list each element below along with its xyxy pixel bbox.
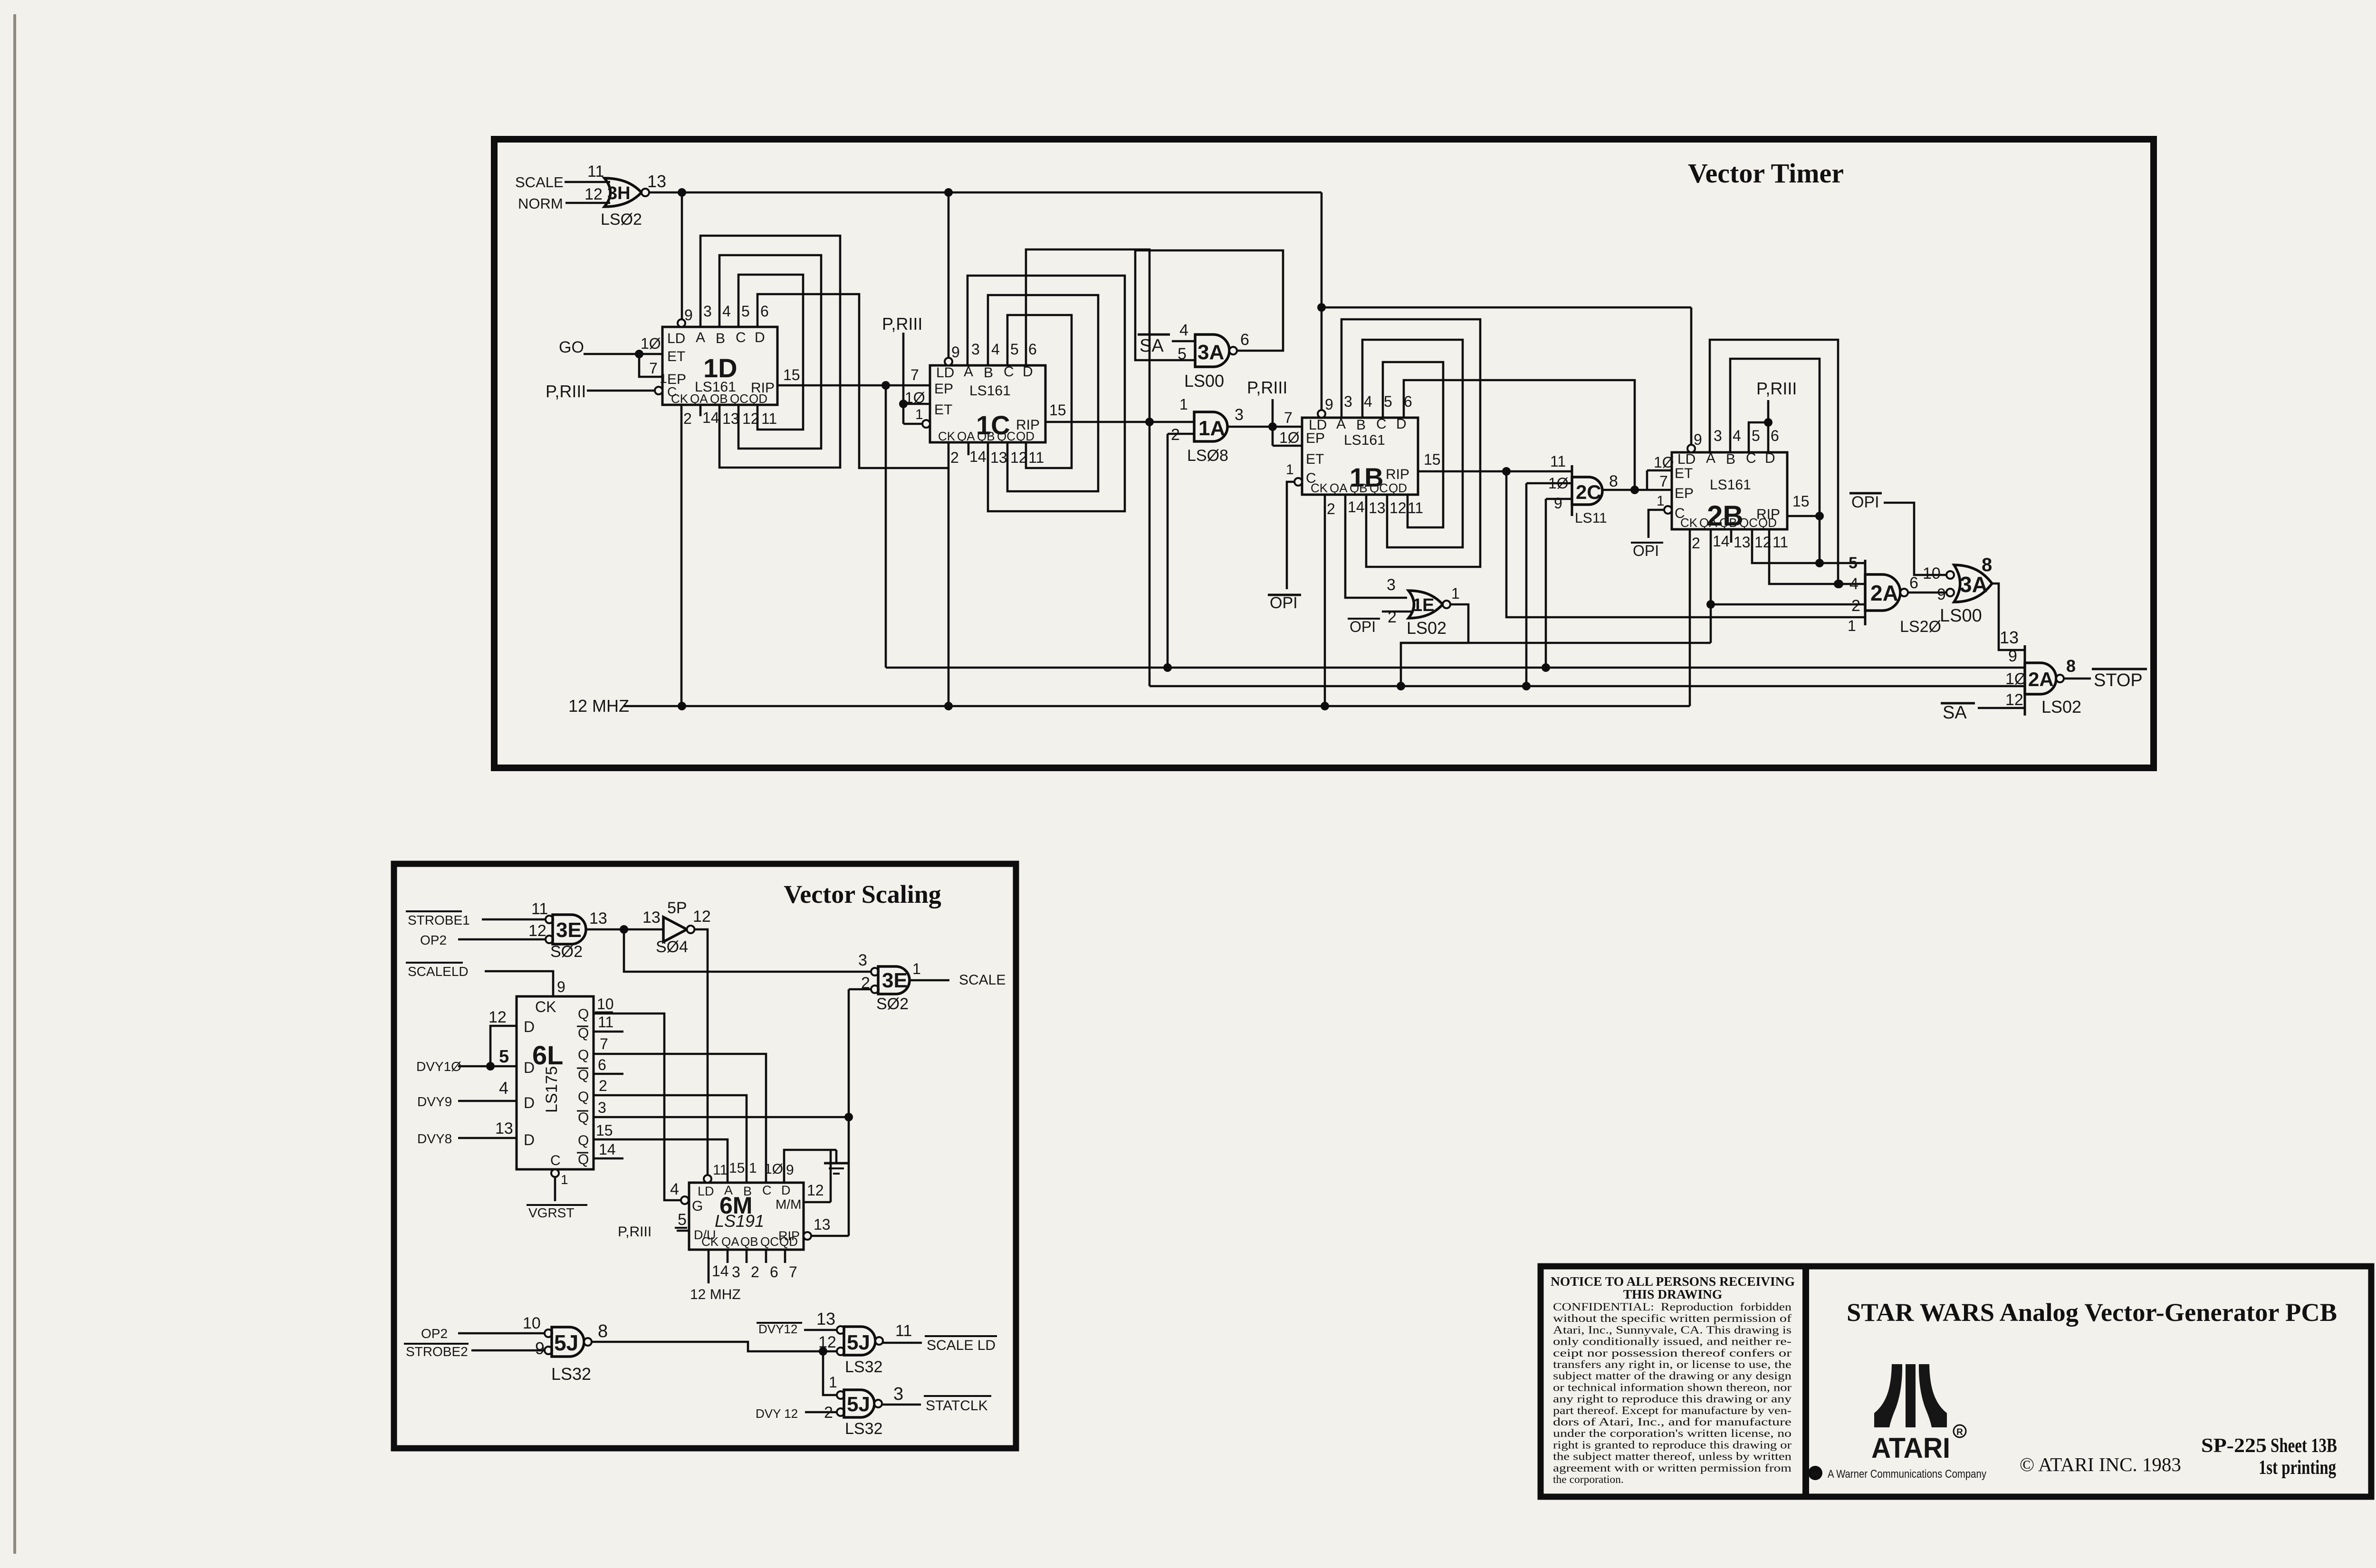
wire scale net vertical <box>848 989 850 1236</box>
IC 1D LS161 counter <box>662 327 777 405</box>
wire CK 2B to 12MHZ bus <box>1689 529 1691 706</box>
wire 3A out 6 feedback to pin 5 <box>1135 250 1283 360</box>
svg-text:12: 12 <box>489 1008 507 1026</box>
svg-text:3: 3 <box>1344 393 1352 410</box>
svg-text:1Ø: 1Ø <box>764 1161 783 1177</box>
wire QA 1C stub <box>968 442 970 455</box>
svg-text:8: 8 <box>1982 555 1992 575</box>
svg-text:A: A <box>1336 416 1346 432</box>
wire SCALE input to 3H pin 11 <box>565 181 610 183</box>
svg-text:D: D <box>524 1018 535 1035</box>
loop 1D QC to B <box>719 255 821 449</box>
svg-text:CK: CK <box>671 392 689 406</box>
svg-text:Sheet 13B: Sheet 13B <box>2271 1435 2337 1457</box>
svg-text:STROBE1: STROBE1 <box>408 913 470 927</box>
svg-text:QC: QC <box>760 1234 779 1249</box>
svg-text:13: 13 <box>647 172 666 191</box>
wire STATCLK output <box>882 1404 921 1406</box>
title block outer box <box>1541 1266 2371 1497</box>
svg-text:LS175: LS175 <box>543 1066 561 1113</box>
svg-text:1: 1 <box>829 1374 837 1391</box>
svg-text:EP: EP <box>934 381 953 397</box>
svg-text:12: 12 <box>528 922 546 940</box>
svg-text:5: 5 <box>741 303 750 320</box>
svg-text:QC: QC <box>1370 481 1388 495</box>
svg-text:LD: LD <box>698 1184 714 1198</box>
svg-text:C: C <box>736 330 746 345</box>
svg-text:Atari, Inc., Sunnyvale, CA. Th: Atari, Inc., Sunnyvale, CA. This drawing… <box>1553 1324 1792 1336</box>
svg-text:5J: 5J <box>554 1330 578 1355</box>
svg-text:SA: SA <box>1140 336 1164 356</box>
wire 2C pin 9 from bus 1405 <box>1546 498 1572 500</box>
loop 1B QB to A <box>1341 319 1480 567</box>
svg-text:QD: QD <box>779 1234 798 1249</box>
wire 1E output to bus 1444 <box>1401 604 1468 686</box>
svg-text:6: 6 <box>1028 341 1037 358</box>
svg-text:P,RIII: P,RIII <box>546 382 586 401</box>
gate 1A LS08 AND <box>1194 412 1227 441</box>
wire 647 horizontal to 2B LD <box>1322 306 1691 309</box>
svg-text:ET: ET <box>1306 451 1324 467</box>
wire NORM input to 3H pin 12 <box>565 202 610 204</box>
svg-text:13: 13 <box>814 1216 831 1233</box>
svg-text:QC: QC <box>730 392 748 406</box>
svg-text:3: 3 <box>598 1099 606 1116</box>
svg-text:9: 9 <box>1937 585 1946 603</box>
svg-text:CK: CK <box>535 998 556 1015</box>
svg-text:4: 4 <box>1733 427 1741 444</box>
svg-text:7: 7 <box>600 1035 608 1052</box>
wire QA 2B to 2A pin 2 and 1E net <box>1710 529 1712 643</box>
svg-text:2A: 2A <box>2028 668 2054 690</box>
svg-text:3A: 3A <box>1960 572 1988 597</box>
gate 5J LS32 third STATCLK <box>837 1391 844 1399</box>
svg-text:LS00: LS00 <box>1940 606 1982 626</box>
svg-text:13: 13 <box>1369 499 1386 516</box>
svg-text:w: w <box>1811 1469 1819 1479</box>
wire 2C out to 2B EP <box>1602 489 1672 491</box>
svg-text:4: 4 <box>670 1180 679 1198</box>
svg-text:5: 5 <box>499 1047 509 1067</box>
wire 1B RIP to 2C pin 11 <box>1418 470 1572 473</box>
svg-text:P,RIII: P,RIII <box>618 1224 651 1240</box>
wire 5P out to 6M LD <box>694 929 708 1174</box>
wire GO to 1D ET pin 10 <box>584 353 662 355</box>
svg-text:Q: Q <box>578 1067 589 1083</box>
svg-text:1Ø: 1Ø <box>1279 429 1300 446</box>
svg-text:1: 1 <box>1286 462 1294 478</box>
svg-text:QB: QB <box>740 1234 758 1249</box>
svg-text:QB: QB <box>977 429 995 443</box>
svg-text:dors of Atari, Inc., and for m: dors of Atari, Inc., and for manufacture <box>1553 1416 1792 1428</box>
svg-text:SØ4: SØ4 <box>656 938 688 956</box>
wire 3H output net 13 top bus <box>649 191 1322 194</box>
svg-text:SCALELD: SCALELD <box>408 964 469 979</box>
svg-text:OPI: OPI <box>1350 618 1376 635</box>
loop 1B QC to B <box>1362 340 1463 547</box>
svg-text:7: 7 <box>1284 409 1293 426</box>
svg-text:LSØ8: LSØ8 <box>1187 447 1228 465</box>
svg-text:3: 3 <box>893 1384 903 1404</box>
svg-text:1st printing: 1st printing <box>2259 1457 2336 1479</box>
svg-text:QA: QA <box>721 1234 739 1249</box>
wire SCALE output <box>910 979 949 982</box>
svg-text:B: B <box>716 331 725 346</box>
wire QA 1B to 1E pin 3 <box>1345 495 1407 598</box>
wire 1B C pin to OPI <box>1294 478 1302 486</box>
svg-text:OPI: OPI <box>1851 493 1879 511</box>
wire PRIII to 6M D/U pin 5 <box>677 1230 689 1232</box>
gate 3E S02 NOR first <box>546 916 553 923</box>
svg-text:12: 12 <box>1389 499 1407 516</box>
wire 6L C pin 1 to VGRST <box>551 1169 559 1177</box>
svg-text:12: 12 <box>693 908 711 926</box>
svg-text:6: 6 <box>1909 574 1918 592</box>
svg-text:OPI: OPI <box>1633 542 1659 559</box>
svg-text:EP: EP <box>1306 430 1325 446</box>
wire OPI to 1E pin 2 <box>1382 611 1413 613</box>
svg-text:4: 4 <box>1179 321 1188 339</box>
svg-text:7: 7 <box>649 360 658 377</box>
svg-text:6: 6 <box>770 1263 778 1281</box>
paper edge line <box>13 14 16 1554</box>
svg-text:9: 9 <box>1325 396 1333 413</box>
svg-text:STAR WARS Analog Vector-Genera: STAR WARS Analog Vector-Generator PCB <box>1847 1298 2337 1327</box>
inverter 5P S04 <box>663 917 687 942</box>
wire to 5J3 pin 1 <box>823 1351 836 1395</box>
loop 1C QB to A <box>968 276 1125 511</box>
6M Q stubs <box>727 1250 729 1263</box>
svg-text:13: 13 <box>642 908 661 927</box>
svg-text:A: A <box>964 364 973 380</box>
svg-text:G: G <box>692 1198 703 1214</box>
loop 1D QD to C <box>738 275 803 430</box>
svg-text:9: 9 <box>1694 431 1702 448</box>
wire 3E out to 3E2 pin 3 <box>624 929 871 972</box>
svg-text:3: 3 <box>703 303 712 320</box>
svg-text:9: 9 <box>535 1339 545 1358</box>
svg-text:QC: QC <box>997 429 1016 443</box>
svg-text:Q: Q <box>578 1006 589 1022</box>
svg-text:A: A <box>1706 450 1715 466</box>
svg-text:Q: Q <box>578 1047 589 1063</box>
svg-text:13: 13 <box>495 1119 513 1138</box>
gate 5J LS32 first <box>545 1329 552 1337</box>
svg-text:C: C <box>1004 364 1014 380</box>
wire 6M CK pin 14 to 12MHZ <box>708 1250 710 1283</box>
svg-text:P,RIII: P,RIII <box>882 314 922 334</box>
svg-text:ET: ET <box>934 402 952 418</box>
wire 6L Qbar pin 14 stub <box>594 1157 623 1160</box>
svg-text:12: 12 <box>584 185 603 203</box>
svg-text:6: 6 <box>1771 427 1779 444</box>
svg-text:M/M: M/M <box>776 1197 801 1212</box>
svg-text:5: 5 <box>1010 341 1019 358</box>
svg-text:1: 1 <box>1657 493 1665 509</box>
svg-text:5P: 5P <box>667 899 687 917</box>
wire 2B C pin to OPI <box>1664 506 1672 514</box>
svg-text:2: 2 <box>751 1263 759 1281</box>
svg-text:8: 8 <box>2066 656 2076 676</box>
ATARI fuji logo <box>1874 1364 1947 1427</box>
wire SCALE LD output <box>883 1342 922 1344</box>
svg-text:QB: QB <box>1719 516 1737 530</box>
svg-text:A: A <box>696 330 705 345</box>
svg-text:D: D <box>781 1183 791 1197</box>
svg-text:15: 15 <box>1792 493 1810 510</box>
svg-text:15: 15 <box>1424 451 1441 468</box>
Vector Scaling bounding box <box>394 864 1016 1448</box>
svg-text:RIP: RIP <box>1386 467 1409 482</box>
svg-text:2C: 2C <box>1576 481 1601 503</box>
svg-text:7: 7 <box>1659 473 1668 490</box>
svg-text:C: C <box>1376 416 1387 432</box>
junction 1C RIP branch <box>1145 418 1154 426</box>
svg-text:QA: QA <box>690 392 708 406</box>
svg-text:QB: QB <box>1350 481 1368 495</box>
svg-text:1: 1 <box>1451 585 1460 602</box>
svg-text:1: 1 <box>749 1160 757 1176</box>
svg-text:5: 5 <box>1849 554 1858 572</box>
svg-text:B: B <box>984 365 993 381</box>
svg-text:part thereof. Except for manuf: part thereof. Except for manufacture by … <box>1553 1405 1792 1417</box>
svg-text:CONFIDENTIAL: Reproduction f: CONFIDENTIAL: Reproduction forbidden <box>1553 1301 1792 1313</box>
svg-text:© ATARI INC. 1983: © ATARI INC. 1983 <box>2020 1453 2181 1475</box>
svg-text:NORM: NORM <box>518 195 563 212</box>
svg-text:CK: CK <box>701 1234 719 1249</box>
svg-text:11: 11 <box>895 1322 912 1340</box>
junction PRIII at 1A out <box>1268 422 1277 431</box>
wire 5J out to 5J2 pin 12 <box>592 1342 837 1351</box>
svg-text:1: 1 <box>912 960 921 977</box>
wire LD 1C vertical <box>948 192 950 358</box>
svg-text:10: 10 <box>1923 564 1941 583</box>
IC 6M LS191 counter <box>689 1183 804 1250</box>
svg-text:D: D <box>1023 364 1033 380</box>
wire 6M RIP pin 13 <box>804 1232 811 1240</box>
svg-text:9: 9 <box>557 978 565 995</box>
svg-text:LD: LD <box>667 331 685 346</box>
svg-text:SCALE: SCALE <box>959 972 1006 988</box>
svg-text:4: 4 <box>722 303 731 320</box>
svg-text:2: 2 <box>1851 597 1860 615</box>
wire 6L Qbar pin 11 stub <box>594 1031 623 1033</box>
svg-text:2: 2 <box>683 410 692 427</box>
svg-text:D: D <box>1396 416 1407 432</box>
svg-text:13: 13 <box>722 410 739 427</box>
ground <box>835 1150 838 1163</box>
svg-text:6: 6 <box>1404 393 1412 410</box>
svg-text:14: 14 <box>712 1262 729 1280</box>
svg-text:14: 14 <box>969 448 987 465</box>
svg-text:SØ2: SØ2 <box>550 943 583 961</box>
Vector Timer bounding box <box>494 139 2154 768</box>
svg-text:5: 5 <box>1752 427 1760 444</box>
svg-text:13: 13 <box>2000 628 2019 647</box>
svg-text:1A: 1A <box>1198 417 1225 440</box>
svg-text:12: 12 <box>1010 449 1027 466</box>
svg-text:LS00: LS00 <box>1184 371 1224 391</box>
svg-text:QC: QC <box>1739 516 1758 530</box>
svg-text:6: 6 <box>760 303 769 320</box>
svg-text:1: 1 <box>1179 396 1188 413</box>
svg-text:5: 5 <box>678 1211 687 1229</box>
svg-text:12 MHZ: 12 MHZ <box>690 1287 741 1302</box>
svg-text:13: 13 <box>1734 534 1751 551</box>
title block divider <box>1802 1266 1809 1497</box>
svg-text:D: D <box>524 1094 535 1111</box>
svg-text:9: 9 <box>2008 647 2017 665</box>
svg-text:1: 1 <box>915 407 923 422</box>
svg-text:QD: QD <box>1758 516 1777 530</box>
gate 2A LS20 second half output STOP <box>2024 645 2026 716</box>
svg-text:DVY12: DVY12 <box>758 1322 797 1336</box>
wire CK 1C to 12MHZ bus <box>948 442 950 706</box>
svg-text:D: D <box>755 330 765 345</box>
svg-text:A Warner Communications Compan: A Warner Communications Company <box>1828 1468 1986 1481</box>
svg-text:DVY1Ø: DVY1Ø <box>416 1059 461 1074</box>
svg-text:4: 4 <box>1849 575 1859 593</box>
wire jog to 2B ET <box>1646 470 1648 490</box>
svg-text:14: 14 <box>1713 533 1730 550</box>
svg-text:6: 6 <box>598 1056 606 1073</box>
svg-text:C: C <box>1746 450 1756 466</box>
svg-text:LD: LD <box>1677 451 1696 467</box>
svg-text:15: 15 <box>1049 402 1066 419</box>
svg-text:7: 7 <box>910 366 919 383</box>
svg-text:D: D <box>524 1131 535 1148</box>
svg-text:1: 1 <box>1848 617 1856 634</box>
svg-text:DVY8: DVY8 <box>417 1131 452 1146</box>
svg-text:ceipt nor possession thereof c: ceipt nor possession thereof confers or <box>1553 1347 1792 1359</box>
loop 1C QC to B <box>988 295 1098 491</box>
wire 1A out to 1B EP <box>1227 426 1302 428</box>
wire GO loop to 1D EP pin 7 <box>639 354 662 377</box>
svg-text:5J: 5J <box>847 1393 870 1416</box>
svg-text:LS161: LS161 <box>1344 432 1385 448</box>
junction top bus at 1435 <box>678 188 686 197</box>
svg-text:DVY9: DVY9 <box>417 1094 452 1109</box>
svg-text:DVY 12: DVY 12 <box>756 1406 798 1421</box>
svg-text:3E: 3E <box>556 918 582 942</box>
svg-text:any right to reproduce this dr: any right to reproduce this drawing or a… <box>1553 1393 1792 1405</box>
svg-text:2: 2 <box>950 449 959 466</box>
svg-text:B: B <box>1726 451 1735 467</box>
svg-text:Q: Q <box>578 1152 589 1167</box>
svg-text:B: B <box>1356 417 1366 433</box>
svg-text:C: C <box>550 1153 561 1168</box>
svg-text:3: 3 <box>1714 427 1722 444</box>
svg-text:CK: CK <box>1311 481 1328 495</box>
wire top bus corner down to 1B LD <box>1321 192 1323 411</box>
svg-text:Q: Q <box>578 1089 589 1105</box>
svg-text:9: 9 <box>1554 495 1562 512</box>
wire LD 1D vertical <box>681 192 683 319</box>
IC 1B LS161 counter <box>1302 418 1418 495</box>
wire QA 1D stub pin 14 <box>699 405 702 416</box>
svg-text:2A: 2A <box>1870 581 1898 605</box>
svg-text:7: 7 <box>789 1263 797 1281</box>
svg-text:OP2: OP2 <box>420 933 447 947</box>
svg-text:or technical information shown: or technical information shown thereon, … <box>1553 1381 1792 1394</box>
junction 1B RIP branch <box>1502 467 1511 476</box>
svg-text:STROBE2: STROBE2 <box>406 1344 468 1359</box>
wire PRIII to 1C ET and C <box>902 333 905 424</box>
registered mark <box>1954 1425 1966 1437</box>
svg-text:LS32: LS32 <box>845 1358 882 1376</box>
svg-text:4: 4 <box>499 1078 508 1098</box>
gate 1E LS02 NOR <box>1408 591 1443 618</box>
wire 6L Q pin 15 to 6M A <box>594 1139 728 1183</box>
wire 1B D chain to 2C output node <box>1404 380 1635 490</box>
svg-text:GO: GO <box>559 338 584 356</box>
loop 2B B to RIP <box>1730 359 1820 563</box>
wire 1D RIP pin 15 to 1C EP <box>777 384 930 387</box>
svg-text:13: 13 <box>990 449 1007 466</box>
svg-text:13: 13 <box>589 909 607 927</box>
svg-text:6: 6 <box>1240 331 1249 349</box>
6M G pin 4 bubble <box>681 1196 689 1204</box>
svg-text:Q: Q <box>578 1025 589 1041</box>
wire 1E net horizontal join <box>1401 642 1711 644</box>
svg-text:only conditionally issued, and: only conditionally issued, and neither r… <box>1553 1336 1792 1348</box>
svg-text:2: 2 <box>1692 535 1700 552</box>
svg-text:without the specific written p: without the specific written permission … <box>1553 1312 1792 1325</box>
wire 1D D chain to 1C CK <box>757 294 948 468</box>
svg-text:8: 8 <box>1609 472 1618 490</box>
svg-text:subject matter of the drawing: subject matter of the drawing or any des… <box>1553 1370 1792 1382</box>
svg-text:11: 11 <box>531 900 548 918</box>
svg-text:11: 11 <box>598 1013 613 1031</box>
svg-text:STOP: STOP <box>2094 670 2143 690</box>
svg-text:1Ø: 1Ø <box>641 335 661 352</box>
svg-text:3A: 3A <box>1198 341 1224 364</box>
svg-text:R: R <box>1956 1427 1963 1437</box>
svg-text:1: 1 <box>561 1172 568 1187</box>
svg-text:10: 10 <box>523 1314 541 1332</box>
bus wire 1405 <box>886 667 2025 669</box>
svg-text:Q: Q <box>578 1110 589 1126</box>
junction top bus at 1996 <box>944 188 953 197</box>
svg-text:9: 9 <box>684 306 693 324</box>
svg-text:SA: SA <box>1943 703 1967 723</box>
svg-text:14: 14 <box>1348 498 1365 516</box>
junction for STATCLK branch <box>819 1347 827 1356</box>
svg-text:11: 11 <box>1408 499 1423 516</box>
svg-text:2: 2 <box>824 1404 833 1422</box>
svg-text:SCALE LD: SCALE LD <box>927 1338 996 1353</box>
svg-text:LS2Ø: LS2Ø <box>1900 618 1941 636</box>
wire 1C D chain down to bus 1444 <box>1026 249 1150 686</box>
svg-text:3E: 3E <box>882 969 908 992</box>
svg-text:15: 15 <box>596 1122 613 1139</box>
svg-text:QA: QA <box>957 429 975 443</box>
gate 3E S02 NOR second SCALE <box>871 968 879 975</box>
svg-text:CK: CK <box>1680 516 1698 530</box>
svg-text:3: 3 <box>1387 576 1396 594</box>
svg-text:6L: 6L <box>532 1040 563 1070</box>
svg-text:5: 5 <box>1384 393 1392 410</box>
svg-text:13: 13 <box>816 1309 835 1329</box>
svg-text:11: 11 <box>1550 453 1566 470</box>
svg-text:LD: LD <box>936 365 954 381</box>
svg-text:LS02: LS02 <box>1407 618 1447 638</box>
svg-text:LSØ2: LSØ2 <box>601 210 642 229</box>
svg-text:LS02: LS02 <box>2041 697 2081 717</box>
junction 3E out <box>620 925 628 934</box>
wire STOP output <box>2064 678 2091 680</box>
svg-text:3: 3 <box>1235 406 1244 424</box>
